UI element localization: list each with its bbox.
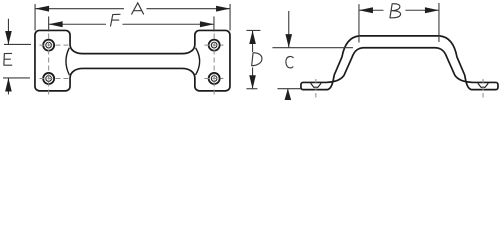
dimension D bottom arrowhead: [249, 75, 256, 89]
dimension E top arrowhead: [5, 31, 12, 45]
dimension F left arrowhead: [49, 21, 63, 27]
dimension D top arrowhead: [249, 30, 256, 44]
dimension F right arrowhead: [200, 21, 214, 27]
dimension B extension line right: [438, 3, 440, 42]
dimension A right arrowhead: [216, 6, 230, 12]
dimension E bottom arrow tail: [7, 78, 9, 95]
bottom-left hole horizontal centerline: [39, 77, 70, 79]
label C: [286, 56, 293, 67]
left countersink hole: [311, 83, 321, 87]
dimension E bottom reference line: [3, 77, 30, 79]
top-right hole horizontal centerline: [204, 44, 223, 46]
dimension C bottom arrowhead: [285, 89, 292, 100]
top-right screw hole: [209, 40, 220, 51]
right countersink centerline: [482, 79, 484, 98]
dimension C top reference line: [272, 47, 353, 49]
dimension D bottom reference line: [246, 88, 257, 90]
dimension B line right segment: [405, 9, 439, 11]
dimension B extension line left: [358, 4, 360, 42]
dimension F extension line right: [213, 16, 215, 31]
label A: [132, 3, 144, 14]
dimension C top arrow tail: [288, 11, 290, 48]
label B: [390, 4, 401, 18]
dimension E top reference line: [4, 43, 31, 45]
bottom-left screw hole: [43, 73, 54, 84]
left countersink centerline: [315, 79, 317, 98]
dimension C bottom reference line: [277, 88, 301, 90]
dimension A line left segment: [35, 8, 124, 10]
dimension C bottom arrow tail: [287, 89, 289, 98]
dimension F extension line left: [48, 16, 50, 31]
dimension A extension line left: [34, 4, 36, 31]
left holes vertical centerline: [48, 33, 50, 96]
label E: [4, 53, 12, 65]
label F: [111, 14, 121, 26]
bottom-right screw hole: [209, 73, 220, 84]
handle top-view outline: [35, 30, 230, 90]
top-left hole horizontal centerline: [39, 44, 70, 46]
dimension D shaft top segment: [252, 30, 254, 52]
dimension E bottom arrowhead: [5, 78, 12, 92]
dimension A left arrowhead: [35, 6, 49, 12]
dimension E top arrow tail: [7, 19, 9, 45]
top-left screw hole: [43, 40, 54, 51]
dimension D shaft bottom segment: [252, 67, 254, 88]
right countersink hole: [478, 83, 488, 87]
dimension B line left segment: [359, 9, 384, 11]
dimension A extension line right: [229, 4, 231, 31]
dimension B left arrowhead: [359, 7, 373, 13]
dimension F line left segment: [49, 23, 106, 25]
dimension D top reference line: [246, 29, 260, 31]
dimension C top arrowhead: [285, 34, 292, 48]
dimension F line right segment: [122, 23, 214, 25]
dimension B right arrowhead: [425, 7, 439, 13]
bottom-right hole horizontal centerline: [204, 77, 223, 79]
right holes vertical centerline: [213, 33, 215, 96]
dimension A line right segment: [146, 8, 230, 10]
right bend line: [196, 48, 200, 75]
handle side-view outline: [301, 36, 498, 90]
label D: [252, 53, 262, 66]
left bend line: [66, 48, 69, 75]
